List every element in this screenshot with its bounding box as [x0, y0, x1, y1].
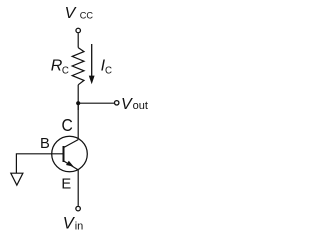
wire base to ground: [16, 154, 63, 173]
wire junction to Vout terminal: [78, 102, 114, 104]
transistor Q1 emitter lead: [64, 161, 79, 170]
transistor Q1 collector lead: [64, 140, 79, 148]
svg-text:E: E: [61, 177, 71, 193]
net VCC label: [65, 5, 94, 22]
net Vout label: [121, 96, 148, 113]
transistor Q1 body: [52, 136, 88, 172]
current arrow IC: [89, 44, 95, 84]
terminal Vout: [115, 101, 119, 105]
wire resistor to junction: [77, 85, 79, 110]
ground: [11, 173, 23, 185]
svg-text:CC: CC: [80, 11, 94, 21]
svg-text:V: V: [65, 5, 77, 22]
svg-text:C: C: [62, 65, 69, 76]
current IC label: [101, 57, 112, 76]
svg-text:B: B: [40, 136, 50, 152]
svg-text:C: C: [105, 66, 112, 77]
svg-text:out: out: [133, 100, 148, 112]
resistor RC: [72, 48, 84, 85]
wire VCC to resistor: [77, 33, 79, 47]
net Vin label: [63, 215, 84, 233]
terminal Vin: [76, 206, 81, 211]
svg-text:C: C: [62, 115, 73, 135]
transistor Q1 base bar: [63, 146, 65, 162]
svg-text:V: V: [121, 96, 133, 113]
svg-text:in: in: [75, 220, 84, 232]
terminal VCC: [76, 28, 81, 33]
wire junction to collector: [77, 103, 79, 139]
wire emitter to Vin terminal: [77, 170, 79, 206]
transistor Q1 emitter arrow: [66, 161, 74, 167]
resistor RC value label: [51, 58, 69, 77]
junction node: [76, 101, 80, 105]
